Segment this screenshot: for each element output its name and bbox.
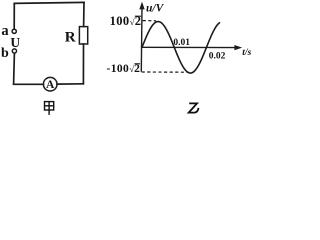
caption jia (甲) (45, 102, 54, 115)
wire bottom left (14, 83, 44, 85)
vinculum over 2 (top) (135, 15, 141, 17)
svg-text:A: A (46, 79, 55, 91)
svg-text:U: U (10, 35, 20, 50)
vinculum over 2 (bottom) (134, 63, 140, 65)
sine curve u(t) (142, 22, 220, 74)
caption yi (乙) (189, 103, 199, 112)
svg-text:b: b (1, 46, 9, 61)
svg-text:t/s: t/s (242, 48, 251, 58)
wire top (14, 2, 84, 3)
wire bottom right (57, 83, 83, 85)
wire right lower (82, 44, 84, 84)
graph y-axis (140, 7, 143, 72)
dashed level +100sqrt2 (143, 20, 156, 22)
x-axis arrowhead (234, 45, 242, 50)
svg-text:u/V: u/V (146, 3, 165, 15)
wire right upper (83, 2, 85, 26)
wire left lower (13, 53, 16, 84)
svg-text:-100√2: -100√2 (107, 63, 141, 75)
resistor R (79, 27, 87, 44)
svg-text:a: a (1, 23, 9, 39)
wire left upper (13, 3, 15, 29)
svg-text:0.02: 0.02 (209, 51, 226, 61)
terminal a (12, 29, 16, 33)
y-axis arrowhead (139, 2, 144, 10)
ammeter A1 (43, 77, 57, 91)
graph x-axis (141, 46, 237, 48)
dashed level -100sqrt2 (142, 71, 189, 73)
svg-text:0.01: 0.01 (173, 38, 190, 48)
terminal b (12, 49, 16, 53)
svg-text:R: R (65, 29, 76, 45)
